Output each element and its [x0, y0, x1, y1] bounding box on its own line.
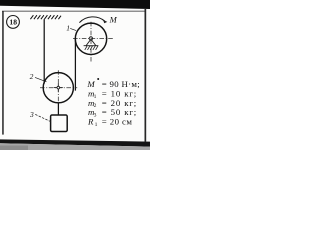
right frame border [145, 9, 147, 142]
leader line for label 1 [70, 28, 76, 30]
torque arc arrow M [79, 17, 105, 23]
pulley 1 pivot support triangle [86, 39, 96, 45]
pulley 1 [75, 23, 106, 54]
superscript star on M [97, 78, 99, 80]
ceiling hatching [30, 15, 61, 19]
pulley 1 axle pin [89, 37, 92, 40]
pulley 2 centerline horizontal [40, 87, 77, 89]
leader line for label 3 [35, 114, 52, 122]
wire rope left: ceiling to pulley 2 [43, 19, 45, 83]
bottom gray scan area [0, 143, 150, 150]
pulley 2 axle cross lines [54, 87, 63, 89]
pulley 2 axle ring [57, 86, 60, 89]
leader line for label 2 [35, 77, 47, 81]
wire rope right: pulley 1 to pulley 2 [74, 39, 76, 91]
top black scan band [0, 0, 150, 9]
block mass 3 [51, 115, 68, 132]
problem number badge circle 18 [7, 16, 20, 29]
svg-text:18: 18 [9, 18, 17, 27]
svg-text:1: 1 [66, 23, 70, 32]
left frame border [2, 11, 4, 135]
svg-text:3: 3 [29, 110, 34, 119]
bottom black scan band [0, 139, 150, 146]
svg-text:M: M [109, 15, 118, 25]
page background [0, 0, 150, 150]
pulley 1 centerline vertical [90, 22, 92, 62]
pivot base line [84, 45, 99, 47]
pulley 2 [43, 73, 73, 103]
wire rope: pulley 2 axle to block 3 [57, 103, 59, 116]
torque arrowhead [103, 20, 107, 23]
bottom-left darker gray patch [0, 146, 28, 151]
top thin frame line [2, 11, 146, 12]
pulley 1 centerline horizontal [73, 38, 113, 40]
pulley 2 centerline vertical [57, 70, 59, 102]
pivot ground hatching [85, 46, 98, 50]
svg-text:2: 2 [30, 72, 34, 81]
